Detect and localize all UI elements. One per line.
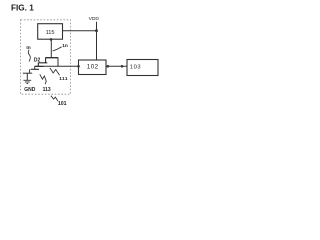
leader from label 1n (53, 47, 62, 51)
resistor 113 bar (23, 72, 32, 74)
wire 115 right to VDD rail (63, 30, 97, 32)
diode D2 bar (31, 68, 39, 70)
svg-text:GND: GND (24, 87, 36, 93)
transistor 111 staircase segment (35, 63, 44, 67)
svg-text:VDD: VDD (89, 16, 100, 22)
leader from label 111 (50, 68, 60, 75)
wire drain node to box 102 (58, 58, 79, 67)
svg-text:101: 101 (58, 101, 67, 107)
wire diode to 113 bar (29, 69, 31, 73)
svg-text:102: 102 (87, 63, 99, 70)
junction dot at VDD rail (95, 29, 98, 32)
junction dot right on wire 102-103 (121, 65, 124, 68)
wire 102 to 103 (106, 65, 127, 67)
node bar of transistor 111 (45, 57, 58, 59)
svg-text:113: 113 (43, 87, 51, 93)
leader from label 113 (40, 74, 46, 84)
VDD rail wire (96, 22, 98, 60)
svg-text:103: 103 (130, 65, 141, 71)
svg-text:111: 111 (59, 76, 68, 82)
svg-text:1n: 1n (62, 43, 68, 49)
block 103 (127, 60, 158, 76)
wire segment transistor to node (35, 65, 59, 67)
block 115 (load / current source) (38, 24, 63, 40)
svg-text:D2: D2 (34, 58, 41, 64)
wire 113 to ground (26, 73, 28, 80)
dashed box 101 (protection circuit outline) (21, 20, 71, 94)
junction dot at 115 bottom (50, 38, 53, 41)
block 102 (79, 60, 107, 75)
transistor 111 drain leg (38, 58, 47, 63)
junction dot at box 102 input (77, 65, 80, 68)
leader from label In (28, 50, 30, 62)
junction dot left on wire 102-103 (107, 65, 110, 68)
wire 115 bottom down to node (50, 39, 52, 57)
leader from label 101 (51, 96, 58, 101)
svg-text:115: 115 (46, 30, 55, 36)
svg-text:FIG. 1: FIG. 1 (11, 3, 34, 12)
wire staircase to diode bar (34, 66, 36, 69)
ground symbol (23, 80, 31, 83)
